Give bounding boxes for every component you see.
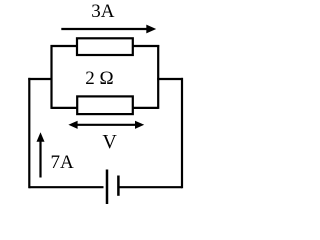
arrow current 7A up xyxy=(37,132,45,177)
svg-text:V: V xyxy=(102,131,117,153)
svg-text:7A: 7A xyxy=(51,152,75,173)
battery plate long xyxy=(106,170,109,205)
wire right connector xyxy=(157,78,183,80)
wire outer right xyxy=(181,78,183,188)
wire left connector xyxy=(28,78,52,80)
resistor R2 xyxy=(77,96,133,114)
node right junction xyxy=(157,45,159,109)
wire bottom branch right xyxy=(133,107,158,109)
node left junction xyxy=(50,45,52,109)
wire bottom left xyxy=(29,186,103,188)
wire outer left xyxy=(28,78,30,188)
wire top branch right xyxy=(133,45,159,47)
svg-text:3A: 3A xyxy=(91,1,115,22)
wire bottom branch left xyxy=(52,107,78,109)
arrow voltage V double-headed xyxy=(68,121,144,129)
battery plate short xyxy=(117,176,120,196)
arrow current 3A xyxy=(61,25,156,34)
resistor R1 xyxy=(77,38,133,55)
svg-text:2 Ω: 2 Ω xyxy=(85,68,113,89)
wire top branch left xyxy=(51,45,78,47)
wire bottom right xyxy=(119,186,182,188)
